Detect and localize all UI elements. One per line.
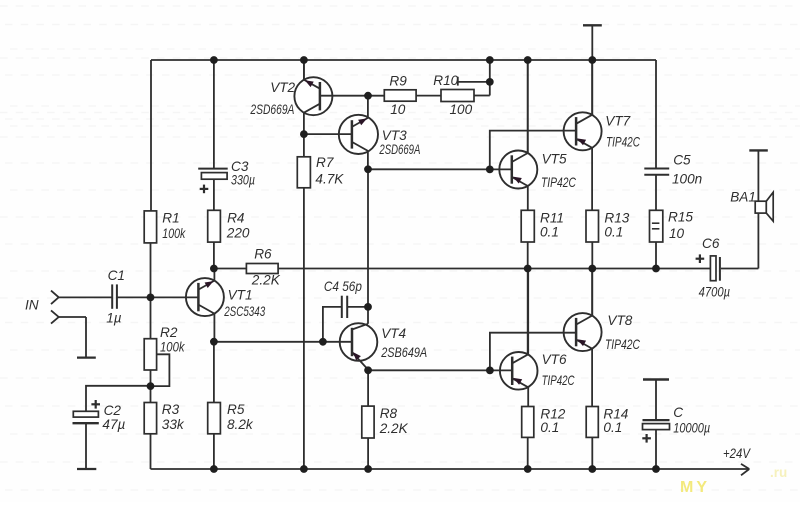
svg-text:4700µ: 4700µ [699, 285, 731, 300]
svg-text:R1: R1 [162, 211, 179, 226]
svg-text:R3: R3 [162, 402, 180, 417]
svg-text:C5: C5 [673, 152, 691, 167]
svg-text:R10: R10 [433, 73, 458, 88]
svg-text:VT5: VT5 [542, 152, 567, 167]
svg-text:100n: 100n [672, 171, 702, 186]
svg-text:R13: R13 [604, 210, 629, 225]
svg-text:R15: R15 [668, 210, 693, 225]
svg-text:IN: IN [25, 298, 39, 313]
svg-text:R7: R7 [316, 155, 334, 170]
svg-text:VT4: VT4 [381, 326, 406, 341]
svg-text:C: C [673, 405, 683, 420]
svg-text:R8: R8 [380, 406, 398, 421]
svg-text:0.1: 0.1 [540, 420, 559, 435]
svg-text:0.1: 0.1 [603, 420, 622, 435]
svg-text:R11: R11 [540, 210, 564, 225]
svg-text:8.2k: 8.2k [227, 417, 254, 432]
svg-text:R2: R2 [160, 325, 178, 340]
svg-text:2.2K: 2.2K [251, 273, 281, 288]
svg-text:47µ: 47µ [102, 417, 125, 432]
svg-text:330µ: 330µ [231, 172, 255, 187]
svg-text:C1: C1 [108, 268, 125, 283]
svg-text:R6: R6 [254, 247, 272, 262]
svg-text:0.1: 0.1 [540, 225, 559, 240]
svg-text:VT1: VT1 [228, 288, 253, 303]
svg-text:100: 100 [450, 102, 473, 117]
svg-text:0.1: 0.1 [604, 225, 623, 240]
svg-text:100k: 100k [160, 339, 185, 354]
svg-text:2SD669A: 2SD669A [250, 102, 295, 117]
svg-text:VT7: VT7 [605, 113, 630, 128]
svg-text:2SC5343: 2SC5343 [223, 304, 265, 319]
svg-text:+24V: +24V [723, 446, 752, 461]
svg-text:2SD669A: 2SD669A [379, 142, 421, 157]
svg-text:VT3: VT3 [382, 128, 407, 143]
svg-text:1µ: 1µ [106, 310, 122, 325]
svg-text:C6: C6 [702, 236, 720, 251]
svg-text:.ru: .ru [770, 465, 787, 480]
svg-text:VT2: VT2 [270, 80, 295, 95]
svg-text:MY: MY [680, 479, 710, 496]
svg-text:10: 10 [669, 226, 685, 241]
svg-text:VT8: VT8 [607, 313, 632, 328]
svg-text:2SB649A: 2SB649A [380, 345, 427, 360]
svg-text:C4 56p: C4 56p [324, 279, 362, 294]
svg-text:33k: 33k [162, 417, 185, 432]
svg-text:R5: R5 [227, 402, 245, 417]
svg-text:BA1: BA1 [730, 189, 756, 204]
svg-text:10: 10 [390, 102, 406, 117]
svg-text:2.2K: 2.2K [379, 421, 409, 436]
svg-text:R9: R9 [389, 74, 407, 89]
svg-text:220: 220 [226, 226, 250, 241]
svg-text:VT6: VT6 [542, 352, 567, 367]
svg-text:TIP42C: TIP42C [541, 175, 576, 190]
svg-text:4.7K: 4.7K [315, 172, 344, 187]
svg-text:R4: R4 [227, 211, 245, 226]
svg-text:TIP42C: TIP42C [542, 373, 575, 388]
svg-text:TIP42C: TIP42C [606, 135, 640, 150]
svg-text:100k: 100k [162, 226, 186, 241]
svg-text:10000µ: 10000µ [673, 421, 710, 436]
svg-text:TIP42C: TIP42C [605, 337, 640, 352]
